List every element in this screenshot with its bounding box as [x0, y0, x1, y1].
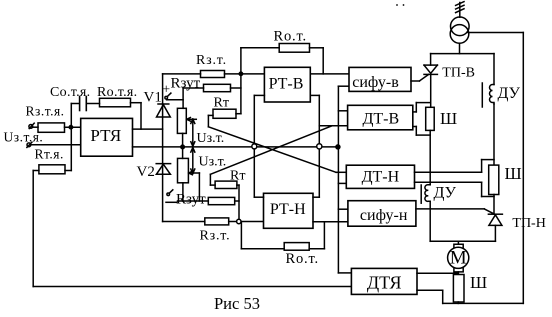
wire shunt left bracket DT-V	[413, 103, 430, 136]
wire Rt upper leads	[208, 114, 241, 127]
resistor Rz.t.ya	[38, 123, 65, 132]
wire Rz.t.ya to RTYA input	[65, 126, 81, 128]
wire bus stub to sifu-n input 1	[338, 208, 348, 210]
resistor Rzut lower (horizontal)	[208, 197, 234, 204]
wire shunt right to TP-N	[493, 195, 495, 215]
svg-text:Rзут: Rзут	[171, 76, 201, 92]
svg-text:Uз.т.: Uз.т.	[197, 131, 225, 146]
tap arrow at V2 (- adjustment contact)	[167, 190, 173, 196]
capacitor Co.t.ya	[71, 97, 99, 111]
terminal Uz.t.ya upper (input circle)	[29, 123, 34, 128]
svg-text:+: +	[162, 83, 170, 98]
resistor Ro.t upper (feedback of RT-V)	[279, 44, 309, 53]
svg-text:Rт: Rт	[230, 169, 245, 184]
svg-text:Rз.т.: Rз.т.	[200, 229, 231, 244]
resistor Sh right (shunt)	[489, 165, 499, 194]
wire DU right to shunt right	[493, 104, 495, 165]
block RT-V	[264, 67, 310, 102]
node dot bus / centre line	[336, 145, 340, 149]
wire right leg down to DU right	[493, 54, 495, 85]
wire lower pot bottom lead	[178, 183, 209, 201]
wire Rt.ya right to summing node vertical	[65, 170, 71, 172]
resistor Sh left (shunt in TP-V leg)	[426, 107, 435, 130]
block DTYA	[351, 268, 417, 294]
svg-text:V2: V2	[137, 164, 155, 180]
svg-text:Ш: Ш	[440, 109, 457, 128]
svg-text:Rо.т.я.: Rо.т.я.	[97, 85, 137, 100]
potentiometer Rzut upper (vertical box)	[177, 108, 186, 133]
wire Rt.ya left + feedback down to bottom line	[33, 171, 39, 287]
svg-text:Ш: Ш	[505, 164, 522, 183]
svg-text:Рис 53: Рис 53	[214, 294, 260, 313]
resistor Ro.t.ya	[100, 98, 131, 107]
power transformer	[450, 3, 469, 54]
svg-text:Ш: Ш	[470, 273, 487, 292]
wire transformer right tap to far right rail	[468, 33, 523, 304]
block DT-N	[346, 165, 414, 188]
block DT-V	[348, 105, 413, 130]
wire bus stub to DTYA input 1	[338, 272, 351, 274]
wire bridge bottom bar	[430, 240, 495, 242]
measuring arrow Uz.t lower (double head)	[191, 148, 195, 174]
svg-text:Rз.т.: Rз.т.	[196, 53, 227, 68]
svg-text:ДТ-В: ДТ-В	[362, 111, 399, 128]
wire Rz.t upper to RT-V input	[225, 73, 265, 75]
wire RTYA output 1 to diode rail	[133, 128, 163, 130]
wire TP-V leg down to DU left	[429, 130, 431, 184]
inductor DU right	[482, 83, 494, 107]
resistor Rzut upper (horizontal)	[204, 84, 231, 91]
wire bus stub to DT-V input 1	[338, 110, 347, 112]
svg-text:РТ-В: РТ-В	[269, 76, 304, 93]
minus dash of -Rzut	[166, 201, 177, 203]
wire Rzut upper right lead to node vertical	[231, 74, 241, 114]
wire Rt lower leads	[210, 174, 239, 185]
svg-text:Uз.т.я.: Uз.т.я.	[4, 130, 44, 145]
node summing junction dot	[69, 126, 72, 129]
svg-text:РТ-Н: РТ-Н	[270, 201, 306, 218]
wire pot-to-pot vertical through centre line	[182, 133, 184, 158]
wire sifu-n output and TP-N gate	[416, 209, 494, 214]
svg-text:Rт.я.: Rт.я.	[35, 147, 64, 162]
svg-text:ДТ-Н: ДТ-Н	[362, 169, 400, 186]
diode V2	[156, 164, 170, 175]
block RT-N	[264, 193, 314, 228]
block sifu-n	[348, 201, 416, 227]
wire terminal 2 to RTYA	[31, 144, 81, 146]
resistor Rt upper	[213, 109, 236, 118]
inductor DU left	[421, 185, 430, 203]
svg-text:V1: V1	[144, 90, 162, 106]
wire signal bus vertical	[337, 86, 339, 273]
wire DT-N output 2 to shunt right bottom	[415, 182, 495, 196]
resistor Ro.t lower (feedback of RT-N)	[284, 243, 309, 251]
wire bottom long feedback line to DTYA	[33, 286, 351, 288]
wire Ro.t.ya to RTYA output	[131, 103, 142, 129]
wire DU left down to bottom bar	[429, 202, 431, 242]
svg-text:сифу-н: сифу-н	[360, 207, 408, 224]
resistor Rz.t lower	[205, 218, 229, 225]
svg-text:Rзут: Rзут	[176, 192, 206, 208]
wire sifu-v output and TP-V gate	[411, 74, 429, 81]
svg-text:ДТЯ: ДТЯ	[367, 273, 402, 293]
svg-text:Rз.т.я.: Rз.т.я.	[26, 104, 65, 119]
wiper arrow upper pot	[187, 118, 197, 122]
wire rail bottom to Rz.t lower	[163, 221, 205, 223]
motor M with brushes	[448, 241, 469, 274]
block RTYA (РТЯ regulator)	[81, 118, 133, 156]
wire bridge top bar	[431, 53, 494, 55]
wire bus stub to DT-N input 2	[338, 182, 346, 184]
wire DTYA output 2 to bottom return	[417, 290, 443, 303]
svg-text:Rо.т.: Rо.т.	[286, 251, 319, 267]
wire right rail to DT-V input 2	[319, 125, 347, 127]
wire DTYA output 1 to motor node	[417, 272, 458, 274]
thyristor TP-V	[424, 54, 437, 108]
node dot pot / centre line	[181, 145, 185, 149]
wire RT-V output to sifu-v	[310, 73, 349, 75]
thyristor TP-N	[488, 214, 502, 241]
svg-text:ТП-Н: ТП-Н	[512, 216, 545, 231]
svg-text:ТП-В: ТП-В	[442, 66, 475, 81]
wire summing node vertical	[70, 104, 72, 171]
terminal Uz.t.ya lower (input circle)	[27, 142, 32, 147]
wire diode rail vertical	[162, 74, 164, 222]
svg-text:Rт: Rт	[214, 96, 229, 111]
measuring arrow Uz.t upper (double head)	[191, 119, 195, 146]
wire shunt bottom to bottom return	[443, 302, 524, 303]
svg-text:РТЯ: РТЯ	[90, 126, 121, 145]
resistor Sh bottom (shunt in armature)	[453, 275, 464, 303]
wire bus stub to sifu-v input 2	[338, 85, 349, 87]
wire DT-N output 1 to shunt right top	[415, 160, 495, 173]
svg-text:Rо.т.: Rо.т.	[274, 29, 307, 45]
node circle Rz.t lower junction	[237, 219, 241, 223]
wire rail top to Rz.t upper	[163, 73, 201, 75]
svg-text:Со.т.я.: Со.т.я.	[50, 85, 90, 100]
dust dots	[396, 4, 404, 6]
wire Rzut lower right lead	[235, 185, 239, 221]
wire Rz.t lower to RT-N input	[229, 221, 264, 223]
wire V1 tap to Rzut pot top	[167, 88, 184, 108]
svg-text:ДУ: ДУ	[434, 185, 457, 202]
node dot Rz.t / feedback junction	[239, 72, 242, 75]
wire diagonal cross 1 (Rt upper to DT-N)	[208, 127, 346, 173]
wire RTYA output 2: long centre line Uz.t	[133, 146, 339, 148]
wire RT-N output to sifu-n	[313, 221, 348, 223]
wire Rzut upper left lead	[183, 87, 203, 89]
svg-text:сифу-в: сифу-в	[352, 74, 399, 91]
potentiometer Rzut lower (vertical box)	[178, 158, 189, 182]
wiper arrow lower pot	[189, 171, 200, 201]
wire left coupling rail RT-V/RT-N	[254, 95, 264, 197]
wire diagonal cross 2 (Rt lower to DT-V)	[210, 126, 332, 175]
svg-text:М: М	[450, 247, 467, 268]
wire Ro.t upper loop	[241, 48, 323, 74]
node circle centre line / right rail crossing	[317, 144, 322, 149]
resistor Rt.ya	[39, 165, 65, 174]
tap arrow at V1 (+ adjustment contact)	[165, 93, 171, 99]
wire terminal to Rz.t.ya	[33, 126, 38, 128]
svg-text:ДУ: ДУ	[498, 85, 521, 102]
wire right coupling rail RT-V/RT-N	[310, 95, 319, 197]
svg-text:Uз.т.: Uз.т.	[199, 155, 227, 170]
diode V1	[157, 104, 171, 117]
mains hatches above transformer	[456, 2, 464, 13]
wire Ro.t lower loop	[241, 222, 324, 249]
resistor Rt lower	[215, 181, 237, 188]
node circle centre line / left rail crossing	[252, 144, 257, 149]
resistor Rz.t upper	[201, 71, 225, 78]
block sifu-v	[349, 67, 411, 91]
